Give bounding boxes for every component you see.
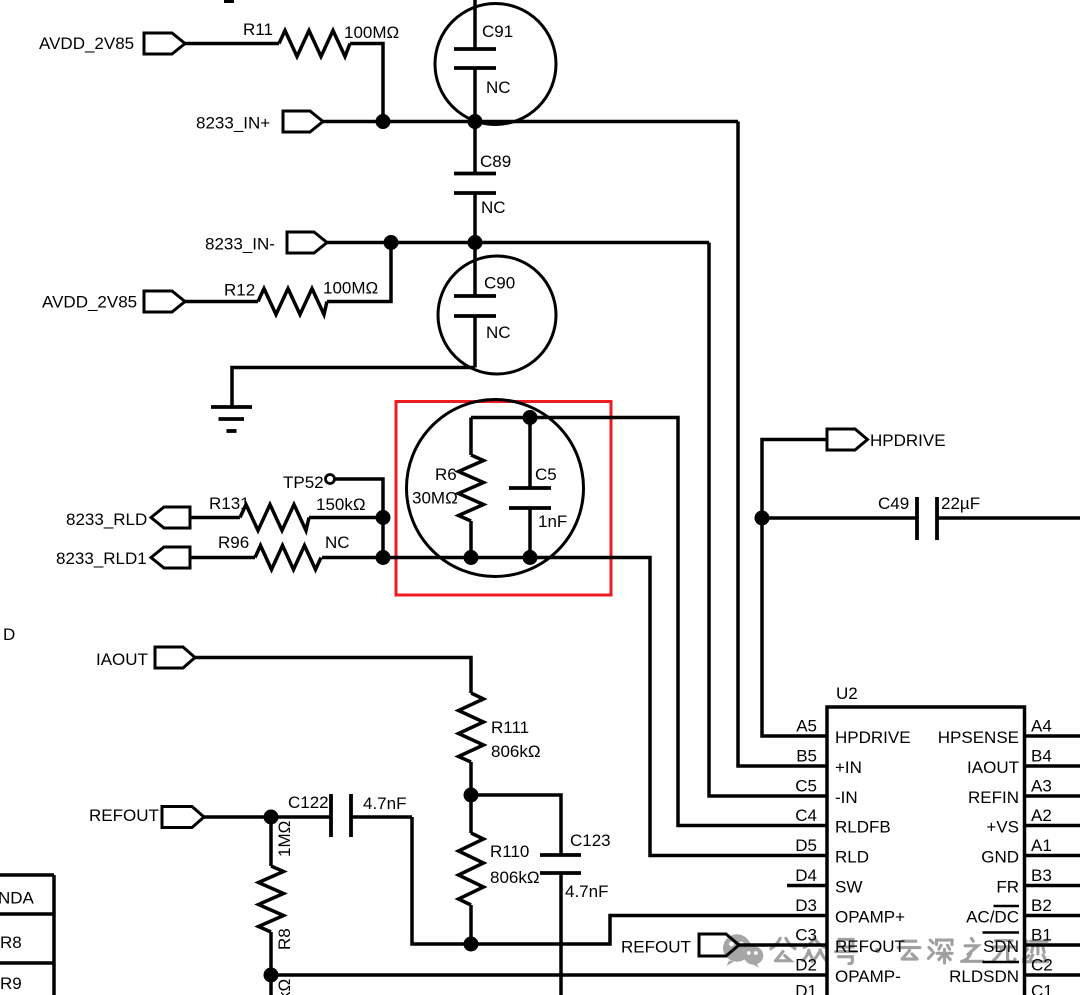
red highlight box xyxy=(396,402,611,596)
wire C91 stem top xyxy=(473,0,477,49)
capacitor C90 xyxy=(438,243,556,375)
watermark char · xyxy=(875,948,880,953)
WATERMARK xyxy=(723,934,1048,968)
svg-text:A3: A3 xyxy=(1031,777,1052,796)
svg-text:R11: R11 xyxy=(243,20,273,39)
svg-text:OPAMP+: OPAMP+ xyxy=(835,908,905,927)
svg-text:8233_RLD: 8233_RLD xyxy=(66,510,147,529)
overline SDN of RLDSDN xyxy=(983,961,1020,964)
left pin numbers xyxy=(795,717,817,995)
svg-text:C49: C49 xyxy=(878,494,909,513)
svg-text:8233_IN+: 8233_IN+ xyxy=(196,114,270,133)
svg-text:A5: A5 xyxy=(796,717,817,736)
svg-text:D: D xyxy=(3,625,15,644)
wire REFOUT net xyxy=(204,815,331,819)
watermark char 公 xyxy=(771,938,795,960)
connector AVDD_2V85 bottom xyxy=(144,291,185,312)
svg-text:806kΩ: 806kΩ xyxy=(490,868,540,887)
resistor R110 xyxy=(459,795,484,944)
svg-text:-IN: -IN xyxy=(835,788,858,807)
svg-text:100MΩ: 100MΩ xyxy=(323,279,378,298)
wire REFOUT to U2 C3 xyxy=(739,943,827,947)
resistor R6 xyxy=(459,418,484,558)
svg-text:NC: NC xyxy=(486,323,511,342)
connector HPDRIVE xyxy=(827,429,868,450)
connector 8233_IN- xyxy=(287,232,327,253)
node junction IN+/C89 xyxy=(468,114,483,129)
node junction C5 bottom xyxy=(523,550,538,565)
wire HPDRIVE net xyxy=(762,440,827,737)
svg-text:kΩ: kΩ xyxy=(275,979,294,995)
svg-text:D5: D5 xyxy=(795,836,817,855)
svg-text:C90: C90 xyxy=(484,274,515,293)
svg-text:OPAMP-: OPAMP- xyxy=(835,967,901,986)
watermark char 号 xyxy=(836,939,857,963)
svg-text:C1: C1 xyxy=(1031,982,1053,995)
node junction RLD1 xyxy=(376,550,391,565)
overline DC xyxy=(994,905,1020,908)
connector IAOUT xyxy=(155,647,195,668)
svg-text:+IN: +IN xyxy=(835,758,862,777)
svg-text:30MΩ: 30MΩ xyxy=(412,489,458,508)
connector 8233_IN+ xyxy=(283,111,323,132)
svg-text:A2: A2 xyxy=(1031,806,1052,825)
circle highlight R6/C5 xyxy=(407,400,584,577)
wire IN- vertical to U2 C5 xyxy=(709,243,827,797)
svg-text:HPDRIVE: HPDRIVE xyxy=(870,431,946,450)
svg-text:D1: D1 xyxy=(795,982,817,995)
svg-text:D3: D3 xyxy=(795,896,817,915)
connector 8233_RLD xyxy=(151,507,190,528)
svg-text:NC: NC xyxy=(481,198,506,217)
svg-text:HPDRIVE: HPDRIVE xyxy=(835,728,911,747)
resistor R11 xyxy=(185,31,383,122)
svg-text:NDA: NDA xyxy=(0,889,35,908)
svg-text:B4: B4 xyxy=(1031,747,1052,766)
wire to C123 xyxy=(471,795,561,855)
svg-text:GND: GND xyxy=(981,848,1019,867)
watermark char 众 xyxy=(802,938,826,962)
svg-text:C5: C5 xyxy=(795,777,817,796)
svg-text:HPSENSE: HPSENSE xyxy=(938,728,1019,747)
resistor R8 xyxy=(259,817,284,995)
watermark char 迹 xyxy=(1024,939,1048,961)
svg-text:C4: C4 xyxy=(795,806,817,825)
node junction RLD xyxy=(376,510,391,525)
inner right pin names xyxy=(938,728,1019,986)
svg-text:C89: C89 xyxy=(480,152,511,171)
connector AVDD_2V85 top xyxy=(144,33,185,54)
svg-text:NC: NC xyxy=(325,533,350,552)
svg-text:C122: C122 xyxy=(288,793,329,812)
svg-text:1MΩ: 1MΩ xyxy=(275,821,294,857)
svg-text:A4: A4 xyxy=(1031,717,1052,736)
wire C90 to ground xyxy=(232,368,475,408)
resistor R12 xyxy=(185,243,391,315)
svg-text:NC: NC xyxy=(486,78,511,97)
svg-text:RLD: RLD xyxy=(835,848,869,867)
svg-text:4.7nF: 4.7nF xyxy=(565,882,608,901)
svg-text:IAOUT: IAOUT xyxy=(96,650,148,669)
svg-text:R110: R110 xyxy=(490,842,529,861)
capacitor C5 xyxy=(509,418,551,558)
capacitor C49 xyxy=(762,497,1080,540)
svg-text:R8: R8 xyxy=(0,933,22,952)
watermark char 之 xyxy=(962,938,983,961)
svg-text:FR: FR xyxy=(996,878,1019,897)
svg-text:1nF: 1nF xyxy=(538,512,567,531)
svg-text:R9: R9 xyxy=(0,974,22,993)
node junction IN+/R11 xyxy=(376,114,391,129)
node junction REFOUT/R8 xyxy=(264,810,279,825)
U2 xyxy=(827,707,1080,995)
svg-text:+VS: +VS xyxy=(986,818,1019,837)
svg-text:100MΩ: 100MΩ xyxy=(344,23,399,42)
node junction R111/R110 xyxy=(464,788,479,803)
right pin numbers xyxy=(1031,717,1053,995)
wire IN+ vertical to U2 B5 xyxy=(738,122,827,767)
inner left pin names xyxy=(835,728,911,986)
svg-text:RLDSDN: RLDSDN xyxy=(949,967,1019,986)
svg-text:R12: R12 xyxy=(224,281,255,300)
svg-text:U2: U2 xyxy=(836,684,858,703)
svg-text:REFOUT: REFOUT xyxy=(89,806,159,825)
wire RLD net bottom horizontal to U2 D5 xyxy=(383,558,827,856)
svg-text:C91: C91 xyxy=(482,22,513,41)
svg-text:R96: R96 xyxy=(218,533,249,552)
svg-text:SW: SW xyxy=(835,878,862,897)
svg-text:REFIN: REFIN xyxy=(968,788,1019,807)
wire 8233_IN+ net horizontal xyxy=(323,120,738,124)
node junction IN-/R12 xyxy=(384,235,399,250)
watermark char 深 xyxy=(928,940,952,963)
resistor R96 xyxy=(190,546,383,570)
svg-text:8233_RLD1: 8233_RLD1 xyxy=(56,549,147,568)
U2 right pin wires A4..C2 xyxy=(1025,736,1080,975)
overline SDN xyxy=(983,931,1020,934)
wire C122 to D3 xyxy=(412,817,827,944)
svg-text:R8: R8 xyxy=(275,928,294,950)
test point TP52 xyxy=(326,475,384,558)
svg-text:150kΩ: 150kΩ xyxy=(316,495,366,514)
svg-text:IAOUT: IAOUT xyxy=(967,758,1019,777)
svg-text:R111: R111 xyxy=(491,718,529,737)
watermark wechat icon xyxy=(723,934,763,968)
wire IAOUT net xyxy=(195,658,471,694)
svg-text:8233_IN-: 8233_IN- xyxy=(205,235,275,254)
capacitor C122 xyxy=(331,794,412,837)
svg-text:C123: C123 xyxy=(570,831,611,850)
node junction R6/C5 top xyxy=(523,410,538,425)
svg-text:806kΩ: 806kΩ xyxy=(491,742,541,761)
resistor R111 xyxy=(459,693,484,795)
ground xyxy=(211,407,252,431)
svg-text:22µF: 22µF xyxy=(941,494,980,513)
node junction R110 bottom xyxy=(464,937,479,952)
wire SW stub D4 xyxy=(787,884,827,888)
svg-text:B3: B3 xyxy=(1031,866,1052,885)
top cut-off mark xyxy=(224,0,234,3)
capacitor C91 xyxy=(435,4,556,125)
connector REFOUT left xyxy=(162,807,204,828)
wire OPAMP- net to U2 D2 xyxy=(271,973,827,977)
node junction IN-/C90 xyxy=(468,235,483,250)
capacitor C123 xyxy=(540,855,581,995)
svg-text:TP52: TP52 xyxy=(283,473,324,492)
svg-text:REFOUT: REFOUT xyxy=(621,938,691,957)
resistor R131 xyxy=(190,505,383,531)
capacitor C89 xyxy=(454,122,496,243)
svg-text:AVDD_2V85: AVDD_2V85 xyxy=(42,293,137,312)
svg-text:R6: R6 xyxy=(435,465,457,484)
svg-text:A1: A1 xyxy=(1031,836,1052,855)
node junction R6 bottom xyxy=(464,550,479,565)
op-amp IC U2 body xyxy=(827,707,1025,995)
svg-text:C5: C5 xyxy=(535,465,557,484)
svg-text:D4: D4 xyxy=(795,866,817,885)
watermark char 无 xyxy=(993,941,1015,962)
svg-text:AVDD_2V85: AVDD_2V85 xyxy=(39,34,134,53)
svg-text:R131: R131 xyxy=(209,494,250,513)
svg-text:AC/DC: AC/DC xyxy=(966,908,1019,927)
svg-text:B5: B5 xyxy=(796,747,817,766)
node junction HPDRIVE/C49 xyxy=(755,511,770,526)
node junction R8 bottom xyxy=(264,968,279,983)
connector REFOUT at C3 xyxy=(699,934,739,956)
svg-text:B2: B2 xyxy=(1031,896,1052,915)
svg-text:RLDFB: RLDFB xyxy=(835,818,891,837)
left table lines xyxy=(0,875,54,995)
svg-text:C2: C2 xyxy=(1031,956,1053,975)
wire 8233_IN- net horizontal xyxy=(327,241,709,245)
connector 8233_RLD1 xyxy=(151,547,190,568)
svg-text:4.7nF: 4.7nF xyxy=(363,794,406,813)
watermark char 云 xyxy=(898,941,920,959)
wire RLDFB top horizontal to U2 C4 xyxy=(471,418,827,826)
